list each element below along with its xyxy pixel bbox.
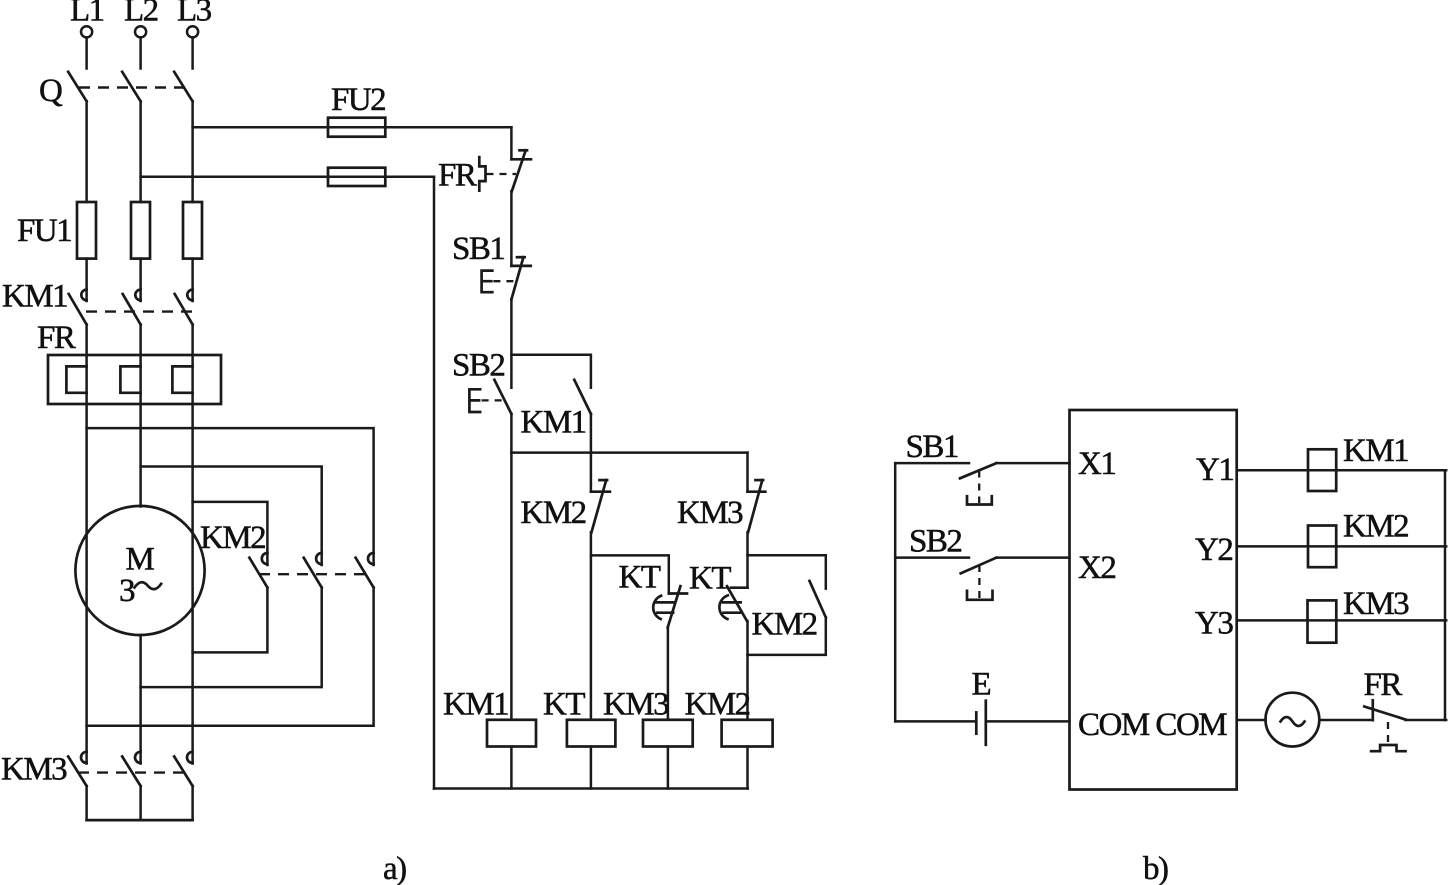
wire KM2 NC to KT coil column [590,532,593,720]
wire X1 input line right [996,462,1069,465]
wire branch to KT contact [591,555,669,593]
pushbutton SB2 (NO) blade [494,380,511,414]
wire fuse2 to KM1 contact [139,259,142,301]
wire COM line left [895,720,976,723]
svg-text:KM1: KM1 [521,405,586,441]
wire bypass B bottom [141,588,322,688]
svg-text:FR: FR [1364,667,1403,703]
contact KT delayed-close (NO) [668,586,687,627]
fuse FU1 pole 1 [77,202,96,259]
contactor KM1 linkage dashed [86,310,192,312]
wire L3 drop to switch [191,37,194,68]
wire L2 switch to fuse [139,101,142,202]
svg-text:Y3: Y3 [1195,606,1233,642]
fuse FU2 lower [328,168,385,186]
SB2 (b) mushroom head [967,591,993,600]
wire tap phase3 to bypass branch A [193,502,268,565]
wire KM2 NC branch drop [590,453,593,492]
wire KM1 pole1 to motor (passes FR box) [85,325,88,764]
AC source circle [1266,693,1320,747]
contact KM2 (NC) in control [591,480,610,532]
wire left rail (b) [894,463,897,721]
wire KT contact to KM3 coil [667,627,670,720]
svg-text:KM2: KM2 [200,520,265,556]
svg-text:X2: X2 [1078,550,1115,586]
contactor KM1 main pole 1 [69,290,87,325]
KT delay symbol right [719,595,740,619]
FR (b) thermal element symbol [1371,745,1405,751]
contactor KM1 main pole 3 [175,290,193,325]
wire L1 drop to switch [85,37,88,68]
wire L3 to FU2 upper line [193,126,512,129]
SB2 actuator dashed link [482,399,506,401]
contact KM3 (NC) branch drop [746,453,749,492]
relay contact FR (NC) in control [511,150,531,191]
svg-text:3: 3 [119,573,135,609]
svg-text:KM2: KM2 [1343,509,1408,545]
svg-text:COM COM: COM COM [1078,707,1227,743]
svg-text:Q: Q [39,73,63,109]
coil KM3 [643,720,693,747]
wire left control rail [433,177,436,789]
svg-text:KM1: KM1 [443,687,508,723]
svg-text:SB2: SB2 [452,348,504,384]
wire L1 switch to fuse [85,101,88,202]
wire junction to KM1 coil [510,453,513,720]
wire FR to SB1 [510,191,513,266]
wire X2 input line right [996,556,1069,559]
KT delay symbol left [653,596,675,619]
thermal relay FR heater box [48,355,221,404]
wire KM1 coil to bottom rail [510,747,513,789]
fuse FU2 upper [328,118,385,137]
svg-text:KM3: KM3 [603,687,669,723]
contact KT delayed-open (NC) [727,586,748,621]
contactor KM2 bypass pole C [356,553,374,588]
svg-text:KM3: KM3 [677,495,743,531]
coil KM1 (b) [1308,449,1336,491]
wire L2 to FU2 lower line [141,176,434,179]
coil KM1 [487,720,536,747]
wire COM line right [986,720,1070,723]
svg-text:SB1: SB1 [906,429,958,465]
wire bottom control rail [434,787,748,790]
svg-text:KM1: KM1 [1343,433,1408,469]
wire KM3 NC down [746,532,749,588]
svg-text:SB1: SB1 [452,231,504,267]
SB1 (b) dashed stem [978,471,980,504]
FR (b) dashed stem [1387,722,1389,744]
wire KM3 pole1 to star bar [85,786,88,820]
contactor KM3 pole 2 [122,752,140,786]
contactor KM2 bypass pole A [249,553,267,588]
wire tap phase2 to bypass branch B [141,467,322,566]
svg-text:Y1: Y1 [1196,452,1233,488]
svg-text:b): b) [1143,851,1168,885]
svg-text:a): a) [383,851,406,885]
svg-text:KM1: KM1 [2,279,67,315]
wire bypass A bottom [193,588,268,653]
svg-text:KM2: KM2 [521,495,586,531]
FR heater loop 2 [120,366,140,392]
wire KM2 aux parallel branch top [748,555,826,588]
wire fuse1 to KM1 contact [85,259,88,301]
wire KM1 pole2 to motor circle top [139,325,142,507]
svg-text:L3: L3 [177,0,212,29]
wire KM1 pole3 down (passes FR box and motor) [191,325,194,764]
svg-text:FU2: FU2 [331,82,385,118]
SB1 actuator E [482,271,493,293]
switch Q pole 3 blade [174,72,192,102]
svg-text:KT: KT [689,561,731,597]
FR heater loop 3 [172,366,192,392]
svg-text:Y2: Y2 [1195,532,1232,568]
contact KM2 aux (NO) blade [810,581,826,618]
FR actuator dashed link [487,173,517,175]
SB2 actuator E [469,389,480,412]
wire L3 switch to fuse [191,101,194,202]
wire bypass C bottom [87,588,374,726]
contact KM1 aux (NO) blade [574,380,591,414]
svg-text:SB2: SB2 [909,524,961,560]
switch Q pole 2 blade [122,72,140,102]
wire right rail (b) [1444,470,1447,720]
star point bar [87,819,193,822]
svg-text:FR: FR [438,158,477,194]
svg-text:KM3: KM3 [1343,586,1409,622]
svg-text:KT: KT [619,560,661,596]
PLC box U1 [1070,410,1237,790]
wire control feed drop [510,127,513,159]
wire KM3 pole3 to star bar [191,786,194,820]
svg-text:KM3: KM3 [1,752,67,788]
coil KT [567,720,616,747]
wire FR to right rail [1406,719,1447,722]
svg-text:KT: KT [543,687,585,723]
wire COM output stub [1237,719,1266,722]
contactor KM2 bypass linkage dashed [259,573,367,575]
wire X2 input line left [895,556,969,559]
wire tap phase1 to bypass branch C [87,428,374,565]
wire fuse3 to KM1 contact [191,259,194,301]
wire motor circle bottom to KM3 contact (pole2) [139,635,142,764]
contact KM3 (NC) in control [748,480,766,532]
svg-text:E: E [972,667,991,703]
wire Y1 output line [1237,469,1447,472]
wire KM2 coil to bottom rail [746,747,749,789]
svg-text:FU1: FU1 [17,213,71,249]
wire KM1 aux to junction [590,414,593,453]
FR actuator bracket [479,157,485,191]
switch Q linkage dashed [79,86,186,88]
relay contact FR (b) NC [1364,700,1405,720]
wire SB2 to junction [510,414,513,453]
wire L2 drop to switch [139,37,142,68]
wire X1 input line left [895,462,969,465]
pushbutton SB1 (NC) [511,257,530,299]
node L1 [70,0,104,37]
pushbutton SB2 (b) blade [961,558,997,574]
motor M circle [75,506,204,635]
wire KM1 aux branch top [511,355,591,388]
fuse FU1 pole 3 [183,202,202,259]
coil KM2 (b) [1308,526,1336,568]
wire KT coil to bottom rail [590,747,593,789]
SB1 actuator dashed link [493,280,515,282]
fuse FU1 pole 2 [131,202,150,259]
svg-text:X1: X1 [1078,446,1115,482]
node L3 [177,0,212,37]
node L2 [124,0,158,37]
wire junction row [511,451,747,454]
battery E plates [976,701,986,745]
svg-text:L2: L2 [124,0,158,29]
svg-text:KM2: KM2 [752,607,817,643]
svg-text:L1: L1 [70,0,104,29]
contactor KM3 linkage dashed [78,771,183,773]
pushbutton SB1 (b) blade [960,463,996,478]
switch Q pole 1 blade [68,72,86,102]
contactor KM1 main pole 2 [123,290,141,325]
wire KM3 coil to bottom rail [667,747,670,789]
SB1 (b) mushroom head [967,496,992,504]
coil KM2 [722,720,773,747]
wire KM2 aux parallel branch bottom [748,617,826,655]
wire KM3 pole2 to star bar [139,786,142,820]
wire SB1 to SB2 [510,300,513,388]
SB2 (b) dashed stem [978,565,980,598]
contactor KM3 pole 3 [174,752,192,786]
svg-text:FR: FR [37,320,76,356]
wire Y3 output line [1237,619,1447,622]
wire Y2 output line [1237,545,1447,548]
coil KM3 (b) [1308,600,1337,642]
contactor KM3 pole 1 [68,752,86,786]
FR heater loop 1 [66,366,86,392]
contactor KM2 bypass pole B [304,553,322,588]
svg-text:KM2: KM2 [685,687,750,723]
wire AC source to FR contact [1319,719,1373,722]
wire KT NC to KM2 coil [746,621,749,720]
